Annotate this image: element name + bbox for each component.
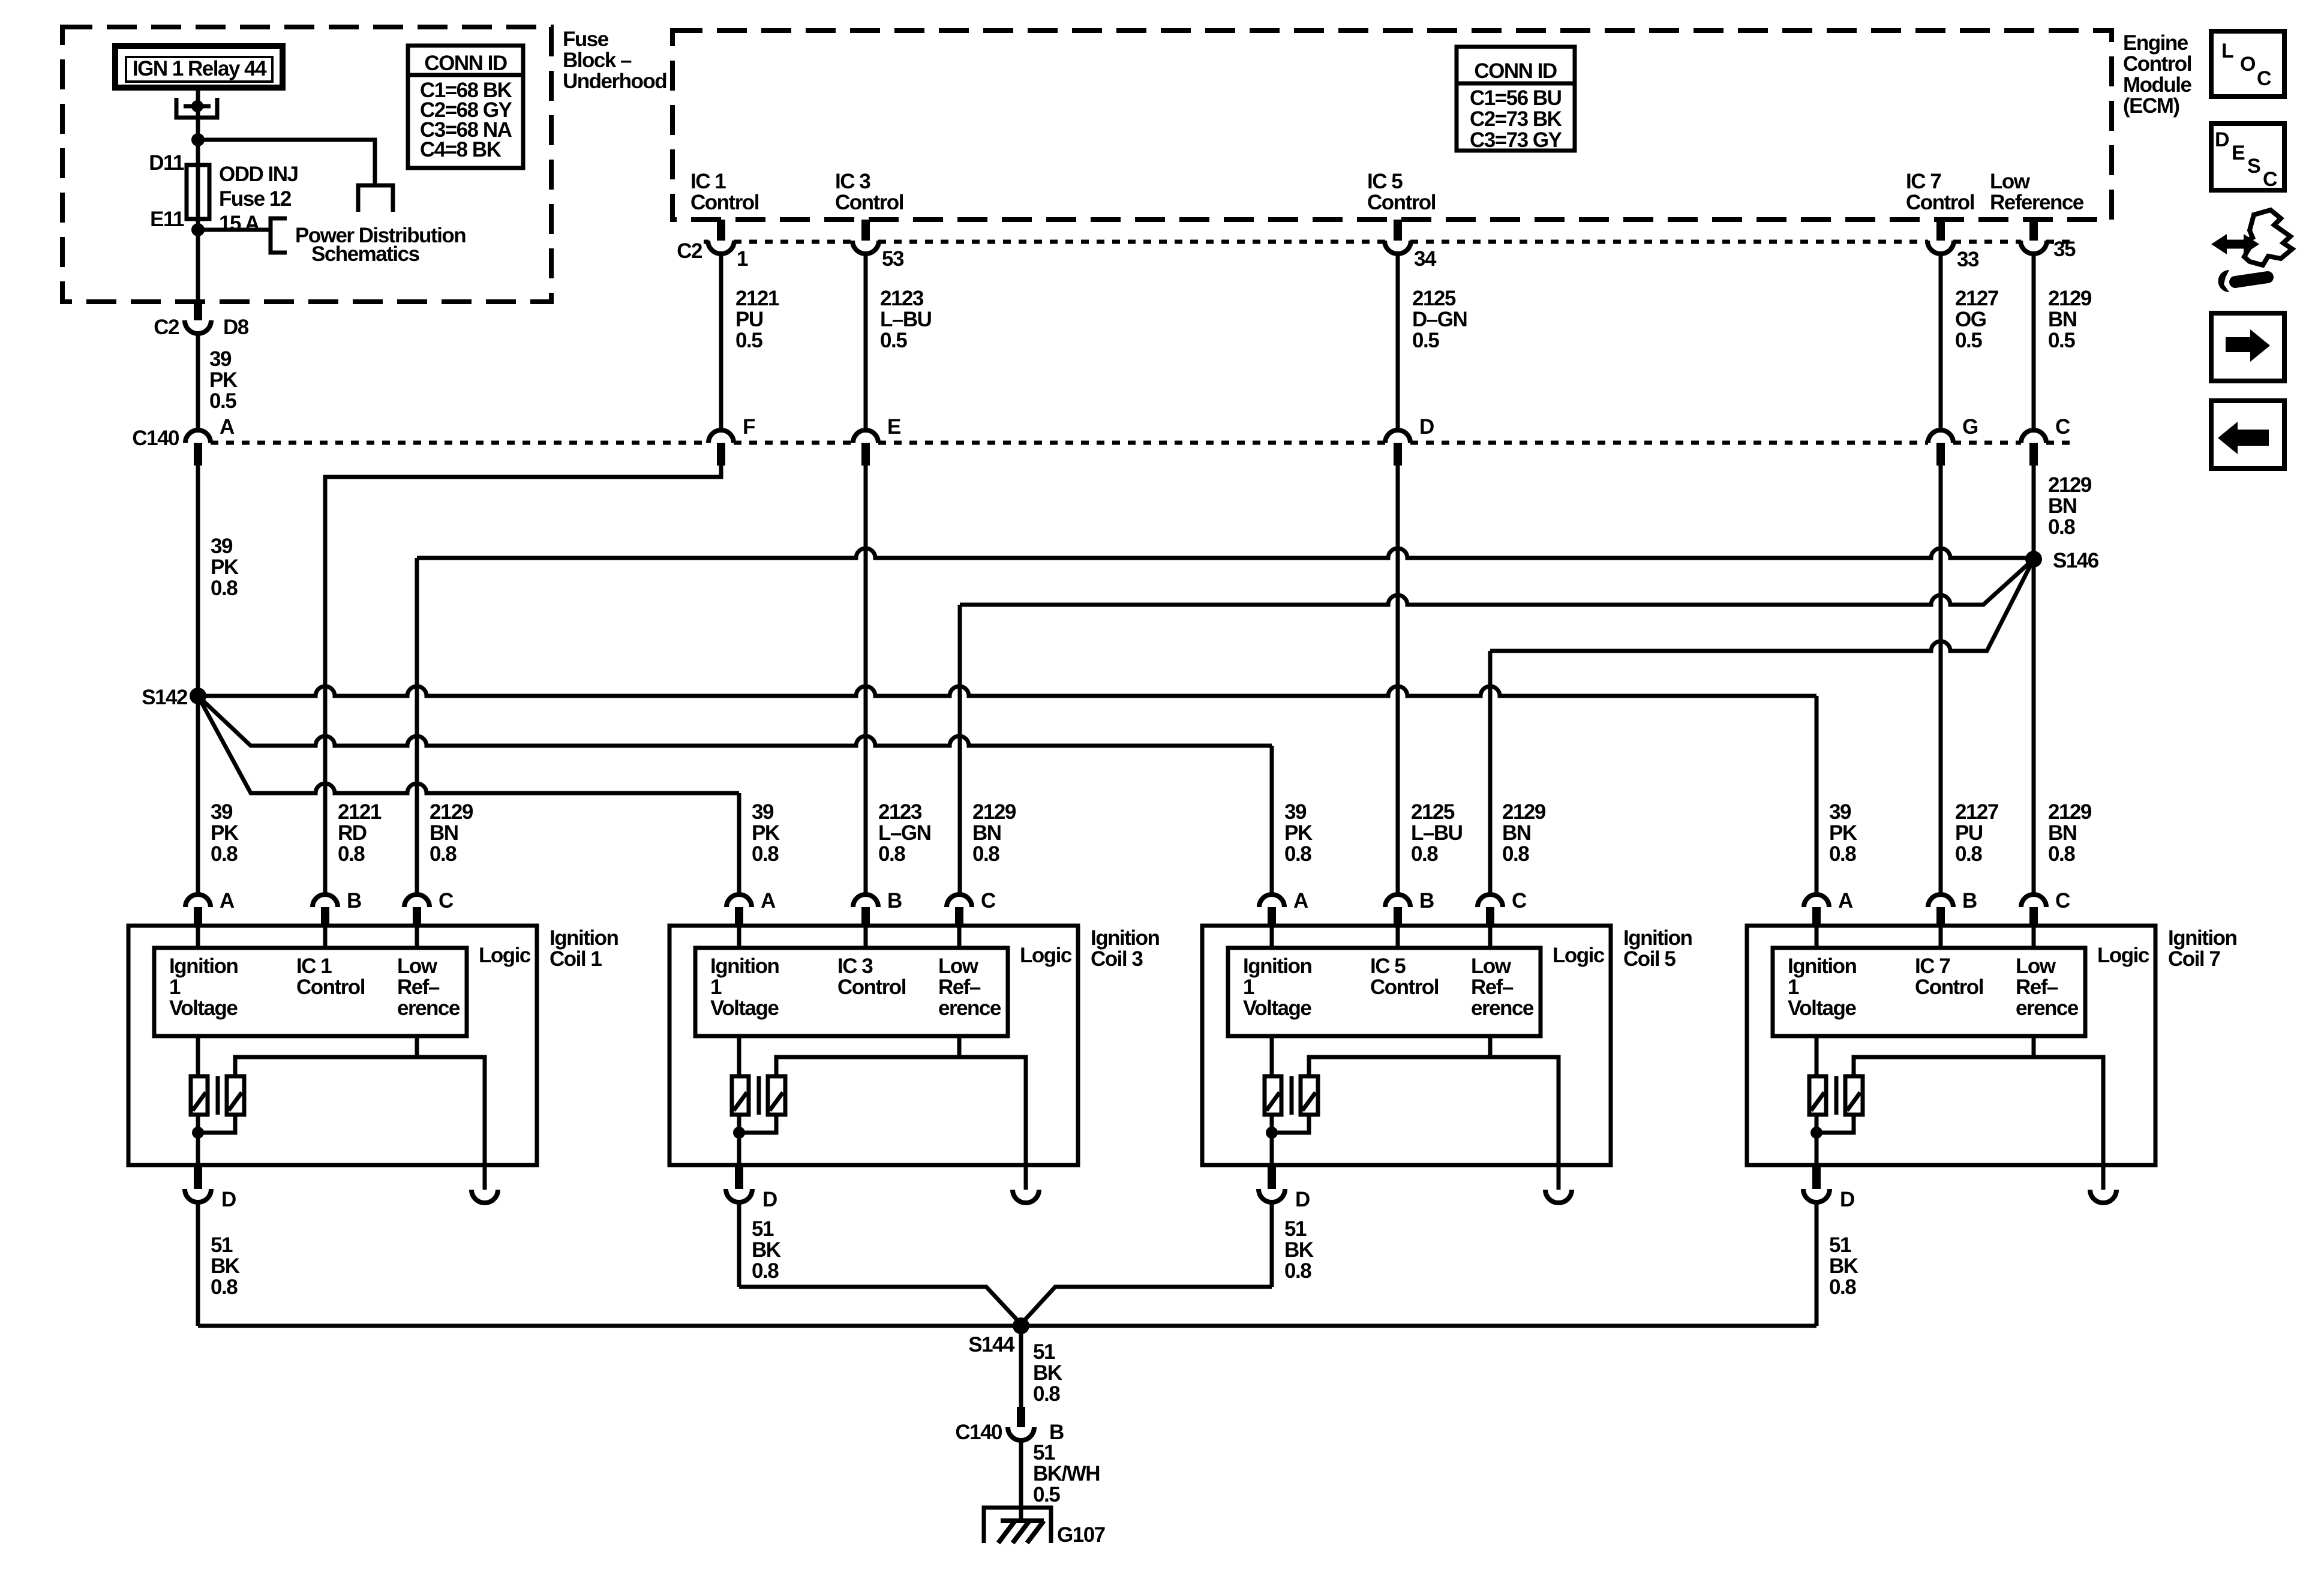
svg-text:IC 3: IC 3 — [835, 170, 870, 193]
svg-text:C: C — [2055, 889, 2070, 912]
svg-text:PK: PK — [752, 821, 780, 845]
splice S144 — [968, 1317, 1029, 1356]
svg-text:D8: D8 — [223, 316, 249, 339]
svg-text:A: A — [761, 889, 776, 912]
label: 39 PK 0.8 — [1284, 800, 1313, 866]
svg-text:D11: D11 — [149, 151, 184, 175]
svg-text:IC 1: IC 1 — [296, 954, 332, 978]
svg-text:51: 51 — [211, 1233, 233, 1257]
svg-text:35: 35 — [2053, 238, 2076, 261]
coil 1 internal wires — [198, 927, 485, 1190]
wire: S142 to coil 7 A (row C) — [198, 686, 1816, 894]
wire: S146 to coil 1 C (row F) — [417, 548, 2034, 894]
off-page bracket (right) — [271, 218, 287, 253]
coil 7 core — [1834, 1076, 1839, 1115]
ignition coil 3 pin A connector — [726, 889, 776, 927]
svg-text:Engine: Engine — [2123, 31, 2188, 55]
svg-text:A: A — [1838, 889, 1853, 912]
svg-text:2129: 2129 — [1502, 800, 1546, 824]
svg-text:51: 51 — [1033, 1441, 1055, 1464]
svg-text:39: 39 — [209, 347, 232, 371]
svg-text:Control: Control — [2123, 52, 2191, 76]
label: Ignition Coil 5 — [1623, 926, 1692, 971]
coil 7 primary winding — [1809, 1076, 1826, 1115]
wire 2127 (C140 G to coil 7 B) — [1939, 466, 1943, 894]
coil 5 primary winding — [1265, 1076, 1281, 1115]
svg-text:PK: PK — [211, 821, 239, 845]
svg-text:2121: 2121 — [338, 800, 382, 824]
coil 3 primary winding — [732, 1076, 749, 1115]
wire 51 BK 0.8 (coil 3 D) — [737, 1202, 741, 1287]
svg-text:0.5: 0.5 — [1955, 329, 1982, 352]
coil 3 spark tower connector — [1013, 1190, 1039, 1203]
svg-text:2129: 2129 — [2048, 473, 2092, 497]
svg-text:C2: C2 — [154, 316, 179, 339]
wire: ECM pin 1 to C140 F — [719, 254, 723, 430]
label: 2127 PU 0.8 — [1955, 800, 1998, 866]
coil 5 pin D connector — [1259, 1165, 1310, 1211]
svg-text:0.8: 0.8 — [2048, 515, 2075, 539]
svg-text:erence: erence — [938, 996, 1001, 1020]
svg-text:C3=73 GY: C3=73 GY — [1470, 128, 1562, 152]
svg-text:IC 3: IC 3 — [837, 954, 873, 978]
conn id table (ECM) — [1457, 47, 1575, 152]
svg-text:Reference: Reference — [1990, 191, 2084, 214]
svg-text:0.8: 0.8 — [1502, 842, 1529, 866]
ignition coil 5 pin A connector — [1259, 889, 1308, 927]
svg-text:Ignition: Ignition — [550, 926, 618, 950]
svg-text:C: C — [1512, 889, 1527, 912]
svg-text:C: C — [2263, 168, 2278, 191]
svg-text:L–BU: L–BU — [880, 308, 932, 331]
connector C2 pin 33 — [1927, 220, 1979, 271]
svg-text:B: B — [887, 889, 902, 912]
svg-text:Low: Low — [2016, 954, 2056, 978]
svg-text:0.8: 0.8 — [211, 842, 238, 866]
wire: relay to junction — [196, 90, 200, 140]
svg-text:S142: S142 — [142, 686, 188, 709]
connector C2 pin 34 — [1385, 220, 1437, 271]
svg-text:51: 51 — [1284, 1217, 1307, 1241]
ignition coil 3 pin B connector — [853, 889, 902, 927]
wire: ECM pin 53 to C140 E — [864, 254, 868, 430]
svg-text:0.8: 0.8 — [211, 577, 238, 600]
svg-text:D: D — [1295, 1188, 1310, 1211]
label: 2129 BN 0.8 — [972, 800, 1016, 866]
svg-text:51: 51 — [752, 1217, 774, 1241]
wire 51 BK 0.8 (coil 7 D) — [1815, 1202, 1819, 1326]
wire 51 BK 0.8 (coil 5 D) — [1270, 1202, 1274, 1287]
svg-text:0.8: 0.8 — [1284, 842, 1311, 866]
label: coil 5 logic pins — [1243, 954, 1534, 1020]
svg-text:0.5: 0.5 — [2048, 329, 2075, 352]
svg-text:IC 7: IC 7 — [1906, 170, 1941, 193]
svg-text:0.8: 0.8 — [1829, 842, 1856, 866]
wire 39 PK 0.5 — [196, 334, 200, 430]
ignition coil 1 pin C connector — [404, 889, 454, 927]
label: 39 PK 0.8 — [752, 800, 780, 866]
coil 5 secondary winding — [1301, 1076, 1318, 1115]
svg-text:B: B — [1419, 889, 1434, 912]
svg-text:A: A — [220, 889, 235, 912]
svg-text:2129: 2129 — [2048, 800, 2092, 824]
connector C2 pin 1 — [708, 220, 748, 271]
label: 51 BK 0.8 (coil 3) — [752, 1217, 781, 1283]
svg-text:L–GN: L–GN — [878, 821, 930, 845]
label: Ignition Coil 3 — [1091, 926, 1159, 971]
ignition coil 1 logic box — [154, 944, 531, 1036]
svg-text:Ref–: Ref– — [397, 975, 440, 999]
svg-text:C: C — [2055, 415, 2070, 439]
svg-text:BN: BN — [2048, 821, 2077, 845]
ignition coil 3 pin C connector — [947, 889, 996, 927]
label: 2123 L-BU 0.5 — [880, 287, 932, 352]
svg-text:0.8: 0.8 — [1284, 1259, 1311, 1283]
svg-text:39: 39 — [1284, 800, 1307, 824]
fuse D11/E11 labels — [149, 151, 184, 231]
connector C140 pin B — [955, 1407, 1064, 1444]
svg-text:RD: RD — [338, 821, 367, 845]
svg-text:D: D — [221, 1188, 236, 1211]
wire: ECM pin 35 to C140 C — [2032, 254, 2036, 430]
ignition coil 7 pin B connector — [1928, 889, 1977, 927]
wire: S142 to coil 5 A (row D) — [198, 696, 1272, 894]
off-page bracket (down) — [358, 185, 393, 212]
svg-text:Logic: Logic — [1553, 944, 1605, 967]
ignition coil 5 logic box — [1228, 944, 1605, 1036]
svg-text:0.8: 0.8 — [752, 842, 779, 866]
coil 7 spark tower connector — [2090, 1190, 2116, 1203]
svg-text:34: 34 — [1414, 247, 1437, 271]
svg-text:0.5: 0.5 — [1033, 1483, 1060, 1506]
svg-text:39: 39 — [211, 800, 233, 824]
svg-text:Control: Control — [1370, 975, 1439, 999]
svg-text:0.8: 0.8 — [1411, 842, 1438, 866]
splice S146 — [2025, 549, 2099, 572]
wire 2121 RD 0.8 (C140 F jog to coil 1 B) — [325, 466, 721, 894]
wire: branch to power distribution — [198, 228, 269, 232]
relay output pin bracket — [176, 98, 217, 118]
svg-text:BK: BK — [1284, 1238, 1314, 1262]
svg-text:Module: Module — [2123, 73, 2192, 97]
coil 3 winding junction — [733, 1127, 745, 1139]
coil 3 internal wires — [739, 927, 1026, 1190]
wire 39 PK 0.8 (C140 A to S142 to coil 1 A) — [196, 466, 200, 894]
svg-text:erence: erence — [1471, 996, 1534, 1020]
relay IGN 1 Relay 44 box — [115, 46, 283, 88]
svg-text:51: 51 — [1033, 1340, 1055, 1364]
svg-text:Schematics: Schematics — [311, 242, 420, 266]
svg-text:D: D — [762, 1188, 777, 1211]
svg-text:2127: 2127 — [1955, 800, 1998, 824]
svg-text:G: G — [1962, 415, 1978, 439]
label: 39 PK 0.8 — [211, 535, 239, 600]
wire: S144 down — [1019, 1326, 1023, 1407]
label: ODD INJ Fuse 12 15 A — [219, 163, 298, 235]
svg-text:1: 1 — [710, 975, 722, 999]
svg-text:Low: Low — [1471, 954, 1512, 978]
svg-text:D: D — [1419, 415, 1434, 439]
wire 51 BK 0.8 (coil 1 D) — [196, 1202, 200, 1326]
connector C2 pin D8 (fuse block output) — [154, 301, 249, 339]
coil 1 winding junction — [192, 1127, 204, 1139]
connector C140 pin D — [1385, 415, 1434, 466]
label: 2123 L–GN 0.8 — [878, 800, 930, 866]
svg-text:2123: 2123 — [878, 800, 922, 824]
label: 2129 BN 0.8 — [2048, 800, 2092, 866]
wire: through fuse — [196, 140, 200, 301]
coil 5 spark tower connector — [1545, 1190, 1572, 1203]
label: coil 1 logic pins — [169, 954, 460, 1020]
fuse ODD INJ Fuse 12 15A — [187, 165, 209, 219]
svg-text:C140: C140 — [132, 427, 179, 450]
svg-text:Low: Low — [938, 954, 979, 978]
ignition coil 3 box — [669, 926, 1078, 1165]
svg-text:Control: Control — [690, 191, 759, 214]
wire 2123 (C140 E to coil 3 B) — [864, 466, 868, 894]
svg-text:erence: erence — [2016, 996, 2079, 1020]
label: Power Distribution Schematics — [295, 224, 466, 266]
svg-text:1: 1 — [169, 975, 181, 999]
coil 1 secondary winding — [227, 1076, 244, 1115]
svg-text:Control: Control — [1367, 191, 1436, 214]
coil 5 winding junction — [1266, 1127, 1278, 1139]
svg-text:Coil 1: Coil 1 — [550, 947, 602, 971]
svg-text:BN: BN — [430, 821, 458, 845]
svg-text:S146: S146 — [2053, 549, 2099, 572]
label: 39 PK 0.5 — [209, 347, 238, 413]
conn id table (fuse block) — [408, 46, 523, 168]
svg-text:D–GN: D–GN — [1412, 308, 1467, 331]
svg-text:Ignition: Ignition — [1091, 926, 1159, 950]
svg-text:BK: BK — [1033, 1361, 1062, 1385]
coil 7 secondary winding — [1845, 1076, 1863, 1115]
svg-text:E: E — [887, 415, 900, 439]
svg-text:0.5: 0.5 — [880, 329, 907, 352]
connector C140 pin G — [1928, 415, 1978, 466]
svg-text:0.5: 0.5 — [1412, 329, 1439, 352]
svg-text:Ref–: Ref– — [938, 975, 981, 999]
svg-text:L: L — [2221, 40, 2234, 62]
svg-text:BK: BK — [1829, 1254, 1858, 1278]
wire: coil 3 D to S144 — [739, 1287, 1021, 1324]
junction below fuse — [191, 223, 205, 236]
svg-text:C: C — [2257, 67, 2272, 90]
coil 7 pin D connector — [1803, 1165, 1854, 1211]
ignition coil 1 pin A connector — [185, 889, 235, 927]
coil 3 secondary winding — [768, 1076, 785, 1115]
svg-text:2121: 2121 — [735, 287, 779, 310]
wire: ground bus — [198, 1324, 1816, 1328]
svg-text:0.8: 0.8 — [1033, 1382, 1060, 1406]
label: 2129 BN 0.5 — [2048, 287, 2092, 352]
svg-text:0.8: 0.8 — [338, 842, 365, 866]
label: Fuse Block - Underhood — [563, 28, 666, 93]
coil 1 pin D connector — [185, 1165, 236, 1211]
svg-text:F: F — [743, 415, 755, 439]
svg-text:C2=73 BK: C2=73 BK — [1470, 107, 1562, 131]
label: 39 PK 0.8 — [211, 800, 239, 866]
wire: coil 5 D to S144 — [1021, 1287, 1272, 1324]
svg-text:Voltage: Voltage — [1788, 996, 1856, 1020]
svg-text:0.8: 0.8 — [211, 1275, 238, 1299]
svg-text:D: D — [2215, 128, 2230, 151]
svg-text:2129: 2129 — [972, 800, 1016, 824]
wire 2129 BN 0.8 (C140 C to S146 to coil 7 C) — [2032, 466, 2036, 894]
svg-text:C2: C2 — [677, 239, 702, 263]
label: IC 5 Control — [1367, 170, 1436, 214]
svg-text:Block –: Block – — [563, 49, 632, 72]
connector C2 pin 35 — [2020, 220, 2076, 261]
svg-text:C1=56 BU: C1=56 BU — [1470, 86, 1562, 110]
svg-text:53: 53 — [882, 247, 904, 271]
wire: branch to power distribution schematics reference — [198, 140, 375, 184]
svg-text:C140: C140 — [955, 1421, 1002, 1444]
wire: ECM pin 33 to C140 G — [1939, 254, 1943, 430]
label: Ignition Coil 1 — [550, 926, 618, 971]
label: Low Reference — [1990, 170, 2084, 214]
svg-text:BN: BN — [2048, 308, 2077, 331]
engine control module dashed box — [672, 31, 2112, 220]
fuse block - underhood dashed box — [62, 27, 551, 302]
svg-text:BK: BK — [752, 1238, 781, 1262]
svg-text:ODD INJ: ODD INJ — [219, 163, 298, 186]
label: 51 BK 0.8 (below S144) — [1033, 1340, 1062, 1406]
label: Engine Control Module (ECM) — [2123, 31, 2192, 118]
svg-text:IC 5: IC 5 — [1367, 170, 1403, 193]
svg-text:S: S — [2247, 155, 2261, 178]
connector C140 pin A — [185, 415, 235, 466]
svg-text:Control: Control — [1915, 975, 1983, 999]
splice S142 — [142, 686, 206, 709]
wire: S142 to coil 3 A (row E) — [198, 696, 739, 894]
svg-text:Coil 5: Coil 5 — [1623, 947, 1676, 971]
label: 2129 BN 0.8 (above S146) — [2048, 473, 2092, 539]
label: coil 7 logic pins — [1788, 954, 2079, 1020]
svg-text:A: A — [1293, 889, 1308, 912]
svg-text:Low: Low — [1990, 170, 2031, 193]
svg-text:IGN 1 Relay 44: IGN 1 Relay 44 — [133, 57, 267, 80]
svg-text:2125: 2125 — [1411, 800, 1455, 824]
svg-text:0.8: 0.8 — [430, 842, 457, 866]
coil 1 primary winding — [191, 1076, 208, 1115]
svg-text:D: D — [1840, 1188, 1854, 1211]
svg-text:2127: 2127 — [1955, 287, 1998, 310]
ignition coil 1 pin B connector — [313, 889, 361, 927]
connector C140 harness dashed line — [132, 427, 2073, 450]
icon: right arrow box — [2211, 313, 2284, 381]
svg-text:Logic: Logic — [1020, 944, 1072, 967]
svg-text:51: 51 — [1829, 1233, 1851, 1257]
svg-text:E11: E11 — [150, 208, 184, 231]
ignition coil 5 pin C connector — [1478, 889, 1527, 927]
svg-text:PU: PU — [735, 308, 763, 331]
label: 51 BK/WH 0.5 — [1033, 1441, 1100, 1506]
connector C140 pin F — [708, 415, 755, 466]
ignition coil 7 logic box — [1773, 944, 2149, 1036]
svg-text:C: C — [981, 889, 996, 912]
label: 2125 D-GN 0.5 — [1412, 287, 1467, 352]
svg-text:Voltage: Voltage — [169, 996, 238, 1020]
svg-text:Underhood: Underhood — [563, 70, 666, 93]
icon: LOC box — [2211, 31, 2284, 97]
svg-text:Control: Control — [296, 975, 365, 999]
icon: diagnostic arrow and wrench — [2211, 210, 2292, 292]
coil 1 spark tower connector — [472, 1190, 498, 1203]
label: 2121 PU 0.5 — [735, 287, 779, 352]
coil 5 internal wires — [1272, 927, 1559, 1190]
svg-text:0.5: 0.5 — [735, 329, 762, 352]
svg-text:0.8: 0.8 — [878, 842, 905, 866]
wire: S146 to coil 5 C (row H) — [1490, 559, 2034, 894]
svg-text:G107: G107 — [1057, 1523, 1105, 1547]
label: Ignition Coil 7 — [2168, 926, 2236, 971]
svg-text:OG: OG — [1955, 308, 1986, 331]
svg-text:1: 1 — [1243, 975, 1254, 999]
svg-text:0.8: 0.8 — [2048, 842, 2075, 866]
ignition coil 7 pin C connector — [2021, 889, 2070, 927]
svg-text:IC 7: IC 7 — [1915, 954, 1950, 978]
svg-text:BN: BN — [1502, 821, 1531, 845]
icon: DESC box — [2211, 124, 2284, 191]
connector C140 pin E — [853, 415, 900, 466]
svg-text:Ignition: Ignition — [2168, 926, 2236, 950]
label: 2127 OG 0.5 — [1955, 287, 1998, 352]
svg-text:Coil 3: Coil 3 — [1091, 947, 1143, 971]
svg-text:A: A — [220, 415, 235, 439]
junction below relay — [191, 133, 205, 146]
svg-text:1: 1 — [737, 247, 748, 271]
svg-text:CONN ID: CONN ID — [1474, 59, 1557, 83]
svg-text:IC 5: IC 5 — [1370, 954, 1406, 978]
svg-text:B: B — [1962, 889, 1977, 912]
ignition coil 7 box — [1747, 926, 2155, 1165]
label: 51 BK 0.8 (coil 5) — [1284, 1217, 1314, 1283]
svg-text:Ignition: Ignition — [169, 954, 238, 978]
connector C2 harness dashed line — [677, 239, 2076, 263]
label: 2129 BN 0.8 — [430, 800, 473, 866]
svg-text:BK/WH: BK/WH — [1033, 1462, 1100, 1485]
wire: ECM pin 34 to C140 D — [1396, 254, 1400, 430]
svg-text:Ignition: Ignition — [710, 954, 779, 978]
svg-text:BN: BN — [972, 821, 1001, 845]
svg-text:2129: 2129 — [2048, 287, 2092, 310]
svg-text:Ignition: Ignition — [1243, 954, 1311, 978]
svg-text:BK: BK — [211, 1254, 240, 1278]
svg-text:2125: 2125 — [1412, 287, 1456, 310]
svg-text:C: C — [439, 889, 454, 912]
svg-text:Control: Control — [1906, 191, 1974, 214]
svg-text:Voltage: Voltage — [710, 996, 779, 1020]
ignition coil 7 pin A connector — [1804, 889, 1853, 927]
svg-text:Ref–: Ref– — [2016, 975, 2058, 999]
svg-text:Control: Control — [837, 975, 906, 999]
svg-text:PU: PU — [1955, 821, 1983, 845]
svg-text:0.8: 0.8 — [1955, 842, 1982, 866]
ignition coil 5 box — [1202, 926, 1611, 1165]
label: 2121 RD 0.8 — [338, 800, 382, 866]
svg-text:0.5: 0.5 — [209, 389, 236, 413]
svg-text:Fuse 12: Fuse 12 — [219, 187, 292, 211]
svg-text:PK: PK — [209, 368, 238, 392]
svg-text:Ref–: Ref– — [1471, 975, 1514, 999]
svg-text:Ignition: Ignition — [1623, 926, 1692, 950]
connector C2 pin 53 — [852, 220, 904, 271]
svg-text:Coil 7: Coil 7 — [2168, 947, 2220, 971]
svg-text:2129: 2129 — [430, 800, 473, 824]
svg-text:0.8: 0.8 — [972, 842, 999, 866]
svg-text:PK: PK — [211, 556, 239, 579]
